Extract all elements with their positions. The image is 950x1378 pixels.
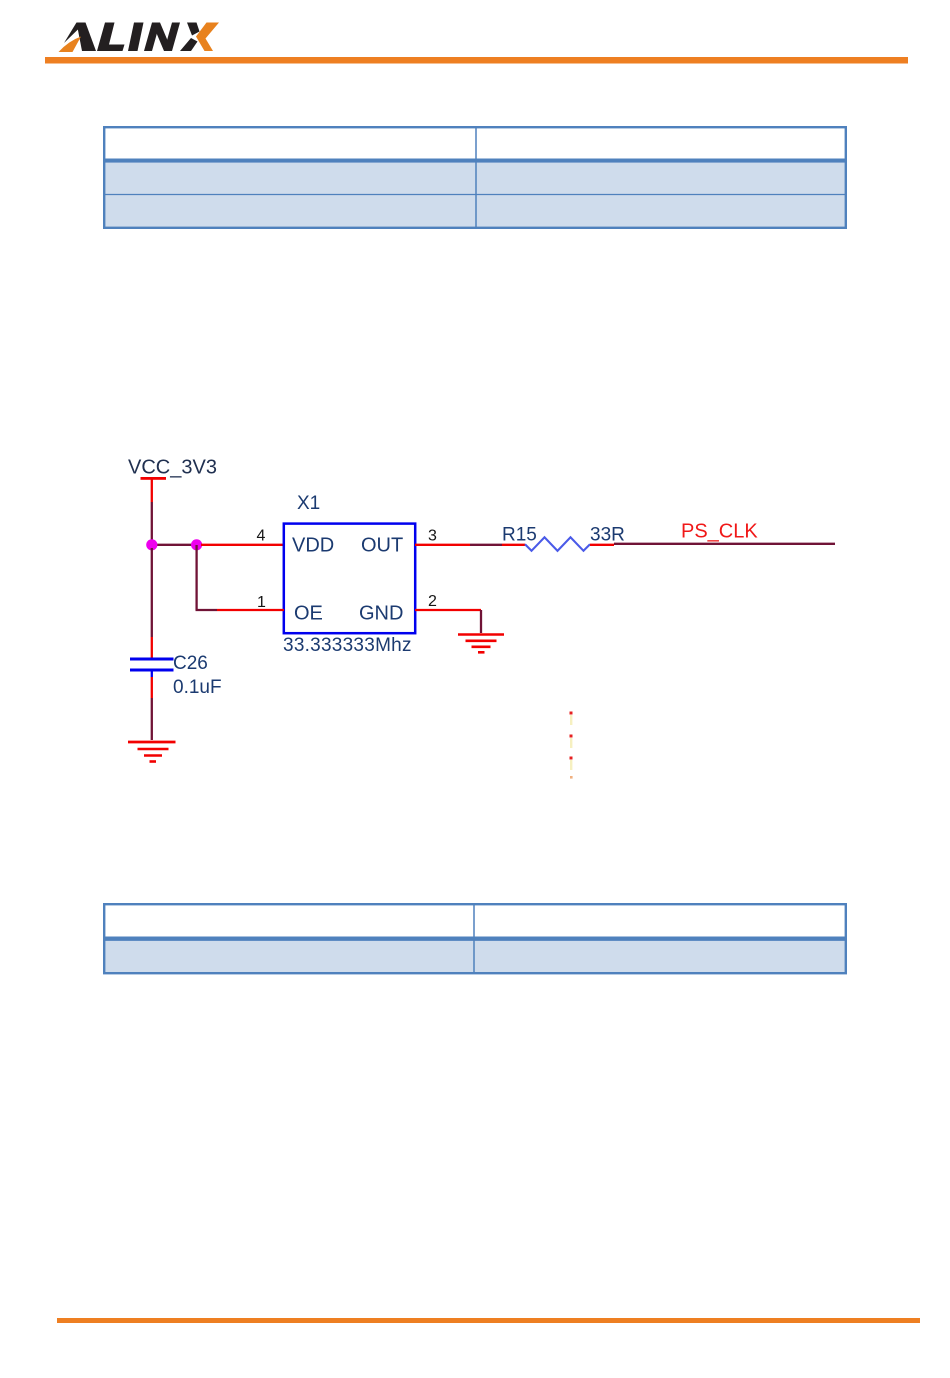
ground symbol below C26 bbox=[128, 742, 176, 762]
wire OE branch vertical bbox=[195, 545, 197, 610]
resistor R15 right pin bbox=[590, 544, 614, 546]
wire GND drop bbox=[480, 610, 482, 633]
svg-text:3: 3 bbox=[428, 528, 437, 545]
wire between junctions bbox=[152, 544, 197, 546]
svg-text:OUT: OUT bbox=[361, 535, 403, 557]
wire PS_CLK net bbox=[614, 543, 835, 545]
svg-text:4: 4 bbox=[257, 528, 266, 545]
capacitor C26 top pin bbox=[151, 637, 153, 658]
wire C26 to ground bbox=[151, 698, 153, 740]
N diagonal bbox=[152, 23, 172, 52]
ALINX logo bbox=[59, 23, 220, 53]
wire VCC vertical bbox=[151, 502, 153, 545]
stray dotted marks bbox=[570, 712, 573, 779]
svg-text:2: 2 bbox=[428, 593, 437, 610]
resistor R15 zigzag bbox=[525, 537, 590, 551]
svg-text:C26: C26 bbox=[173, 653, 208, 674]
I bbox=[128, 23, 144, 52]
svg-text:VDD: VDD bbox=[292, 535, 334, 557]
pin 3 wire bbox=[415, 544, 470, 546]
N left stem bbox=[144, 23, 160, 52]
svg-text:X1: X1 bbox=[297, 493, 320, 514]
svg-text:1: 1 bbox=[257, 594, 266, 611]
svg-text:33R: 33R bbox=[590, 525, 625, 546]
svg-text:VCC_3V3: VCC_3V3 bbox=[128, 457, 217, 479]
resistor R15 left pin bbox=[502, 544, 525, 546]
capacitor C26 bottom pin bbox=[151, 677, 153, 698]
A orange swoosh bbox=[59, 37, 82, 53]
svg-text:0.1uF: 0.1uF bbox=[173, 677, 222, 698]
wire OUT to R15 bbox=[470, 544, 502, 546]
X black chevron bbox=[187, 23, 200, 36]
svg-text:OE: OE bbox=[294, 603, 323, 625]
wire to pin 4 bbox=[201, 544, 284, 546]
bottom orange rule bbox=[57, 1318, 920, 1323]
svg-text:33.333333Mhz: 33.333333Mhz bbox=[283, 635, 412, 656]
wire VCC to C26 bbox=[151, 548, 153, 637]
pin 2 wire bbox=[415, 609, 481, 611]
svg-text:PS_CLK: PS_CLK bbox=[681, 521, 758, 543]
wire OE branch horizontal bbox=[196, 609, 218, 611]
svg-text:GND: GND bbox=[359, 603, 403, 625]
wire to pin 1 bbox=[217, 609, 284, 611]
top orange rule bbox=[45, 57, 908, 64]
table 1 bbox=[104, 127, 846, 228]
L bbox=[97, 23, 125, 52]
oscillator X1 body bbox=[284, 524, 415, 634]
power flag VCC_3V3 bar bbox=[141, 477, 167, 502]
svg-text:R15: R15 bbox=[502, 525, 537, 546]
junction dot B bbox=[191, 539, 202, 550]
junction dot A bbox=[146, 539, 157, 550]
X orange chevron bbox=[196, 23, 219, 52]
N right stem bbox=[164, 23, 180, 52]
A right leg bbox=[77, 23, 97, 52]
table 2 bbox=[104, 904, 846, 973]
capacitor C26 plates bbox=[130, 659, 174, 677]
A left sliver bbox=[64, 23, 82, 44]
ground symbol at GND pin bbox=[458, 635, 504, 653]
